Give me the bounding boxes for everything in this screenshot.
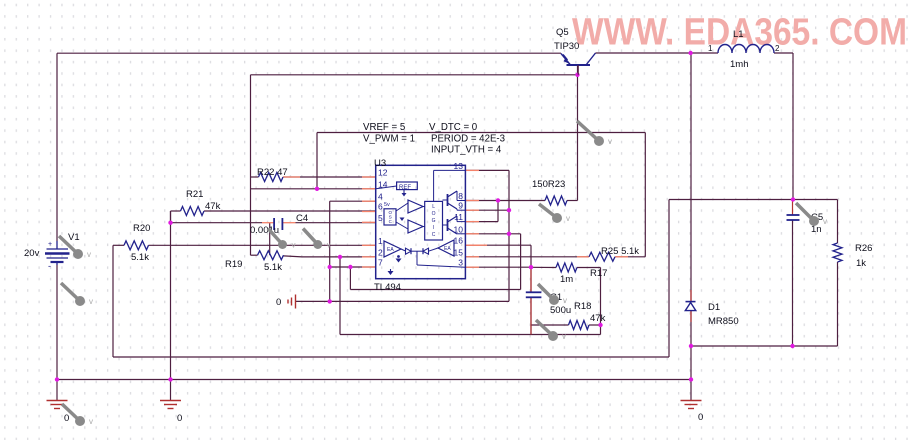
svg-text:Q5: Q5 [556,27,569,38]
svg-text:5v: 5v [384,202,390,208]
svg-text:VREF = 5: VREF = 5 [363,122,405,133]
svg-text:+: + [48,241,52,248]
svg-text:L1: L1 [733,29,744,40]
svg-text:12: 12 [378,168,388,178]
svg-text:EA: EA [444,246,451,252]
svg-text:7: 7 [378,258,383,268]
svg-text:v: v [292,241,296,250]
svg-text:5.1k: 5.1k [264,262,282,273]
svg-text:2: 2 [775,44,780,53]
svg-text:1mh: 1mh [730,59,748,70]
svg-text:13: 13 [454,161,464,171]
svg-text:I: I [433,225,434,231]
svg-text:REF: REF [399,185,411,191]
svg-text:v: v [89,417,93,426]
svg-text:16: 16 [454,236,464,246]
svg-text:INPUT_VTH = 4: INPUT_VTH = 4 [431,145,502,156]
svg-text:v: v [563,296,567,305]
svg-text:v: v [566,214,570,223]
svg-text:G: G [432,218,436,224]
svg-text:150R23: 150R23 [532,179,565,190]
svg-text:0: 0 [177,413,182,424]
svg-text:TL494: TL494 [374,282,401,293]
svg-text:5.1k: 5.1k [131,252,149,263]
svg-text:O: O [432,211,436,217]
svg-text:3: 3 [458,258,463,268]
svg-text:47k: 47k [205,201,221,212]
svg-text:V1: V1 [68,232,80,243]
svg-text:D1: D1 [708,302,720,313]
svg-text:2: 2 [378,247,383,257]
svg-text:15: 15 [454,247,464,257]
svg-text:9: 9 [458,201,463,211]
svg-text:v: v [823,217,827,226]
svg-text:EA: EA [387,247,394,253]
svg-text:R25 5.1k: R25 5.1k [601,246,639,257]
svg-text:1: 1 [378,236,383,246]
svg-text:6: 6 [378,202,383,212]
svg-text:0: 0 [64,413,69,424]
svg-text:47k: 47k [590,313,606,324]
svg-text:R17: R17 [590,268,607,279]
svg-text:4: 4 [378,192,383,202]
svg-text:1: 1 [708,44,713,53]
svg-text:C4: C4 [296,213,308,224]
svg-text:R26: R26 [855,243,872,254]
svg-text:500u: 500u [550,305,571,316]
svg-text:5: 5 [378,213,383,223]
svg-text:V_PWM = 1: V_PWM = 1 [363,134,415,145]
svg-text:v: v [608,137,612,146]
svg-text:L: L [432,204,435,210]
svg-text:1m: 1m [560,274,573,285]
svg-text:v: v [87,250,91,259]
svg-text:R18: R18 [574,301,591,312]
svg-text:R20: R20 [133,223,150,234]
svg-text:0: 0 [698,412,703,423]
svg-text:20v: 20v [24,248,40,259]
svg-text:v: v [89,297,93,306]
svg-text:0: 0 [276,297,281,308]
svg-text:8: 8 [458,191,463,201]
svg-text:1k: 1k [856,258,866,269]
svg-text:v: v [327,241,331,250]
svg-text:C: C [432,232,436,238]
svg-text:-: - [48,261,51,271]
svg-text:V_DTC = 0: V_DTC = 0 [429,122,478,133]
svg-text:TIP30: TIP30 [554,41,579,52]
svg-text:v: v [562,332,566,341]
svg-text:R22 47: R22 47 [257,167,288,178]
svg-text:R19: R19 [225,259,242,270]
svg-text:R21: R21 [186,189,203,200]
svg-text:PERIOD = 42E-3: PERIOD = 42E-3 [431,134,505,145]
svg-text:MR850: MR850 [708,316,739,327]
